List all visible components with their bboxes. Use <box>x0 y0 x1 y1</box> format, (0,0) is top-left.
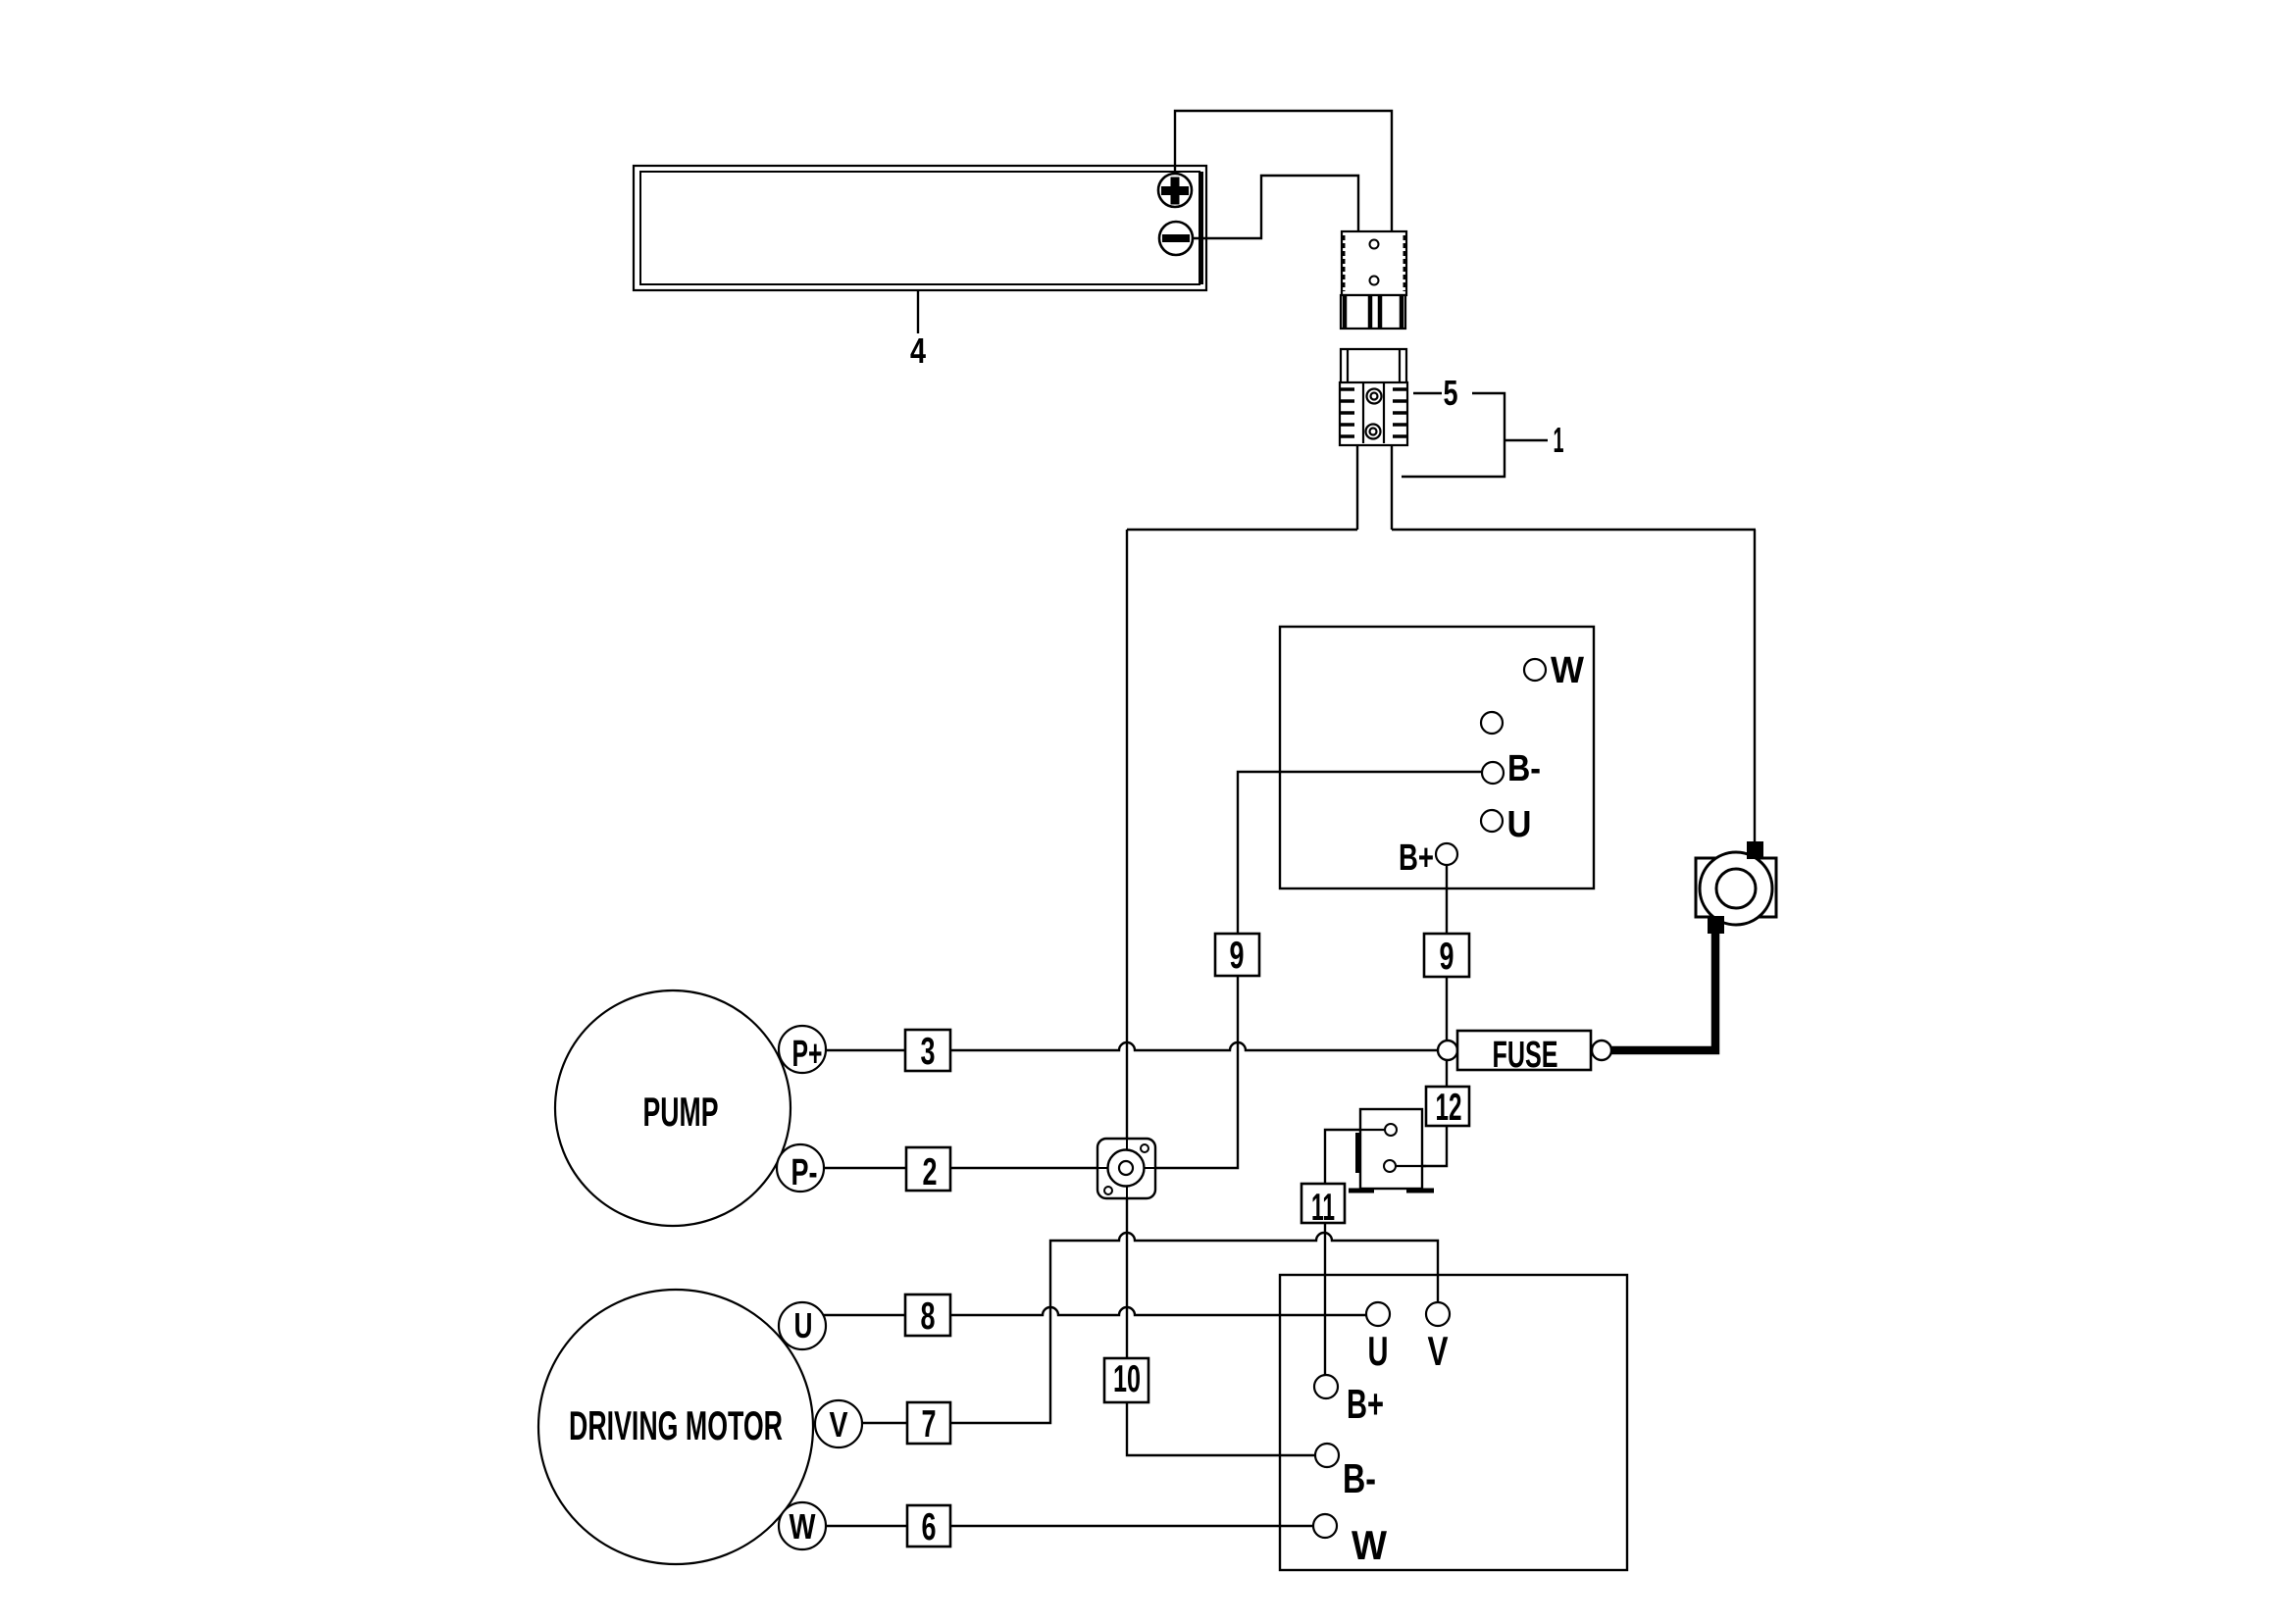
svg-text:W: W <box>1352 1522 1387 1568</box>
svg-text:W: W <box>790 1506 816 1547</box>
svg-text:PUMP: PUMP <box>643 1089 719 1135</box>
svg-text:FUSE: FUSE <box>1493 1035 1558 1076</box>
svg-text:P+: P+ <box>792 1034 823 1075</box>
svg-text:P-: P- <box>791 1152 818 1193</box>
svg-text:3: 3 <box>921 1031 936 1073</box>
svg-text:B+: B+ <box>1399 837 1434 879</box>
svg-text:U: U <box>1368 1328 1389 1374</box>
svg-text:B+: B+ <box>1347 1381 1384 1427</box>
svg-text:U: U <box>1507 804 1532 845</box>
svg-text:1: 1 <box>1554 420 1564 460</box>
svg-text:10: 10 <box>1113 1358 1141 1400</box>
svg-text:DRIVING MOTOR: DRIVING MOTOR <box>569 1402 783 1448</box>
svg-text:6: 6 <box>922 1506 937 1548</box>
svg-text:8: 8 <box>921 1295 936 1338</box>
svg-text:5: 5 <box>1444 373 1458 413</box>
svg-text:V: V <box>1428 1328 1449 1374</box>
svg-text:4: 4 <box>910 330 926 371</box>
svg-text:12: 12 <box>1436 1087 1462 1129</box>
svg-text:9: 9 <box>1230 935 1245 977</box>
svg-text:W: W <box>1551 650 1584 691</box>
svg-text:7: 7 <box>922 1403 937 1446</box>
svg-text:2: 2 <box>923 1151 938 1193</box>
svg-text:B-: B- <box>1343 1455 1376 1501</box>
svg-text:U: U <box>794 1305 813 1345</box>
svg-text:9: 9 <box>1440 936 1454 978</box>
svg-text:V: V <box>830 1404 848 1445</box>
svg-text:11: 11 <box>1311 1187 1335 1229</box>
svg-text:B-: B- <box>1507 748 1541 789</box>
